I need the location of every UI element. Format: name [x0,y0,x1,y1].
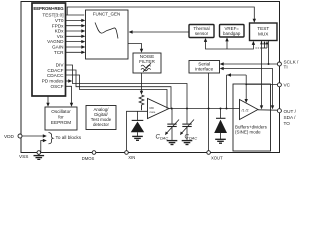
svg-text:VDD: VDD [4,134,15,139]
wire thermal to funct [131,31,190,33]
svg-text:SCLK /: SCLK / [284,59,300,64]
wire rail CDAC C [66,75,168,109]
svg-text:FPDx: FPDx [52,23,64,28]
svg-text:OUT /: OUT / [284,109,297,114]
svg-text:To all blocks: To all blocks [56,135,82,140]
wire TEST bus to funct [66,14,85,16]
svg-text:CDACC: CDACC [47,73,64,78]
wire sclk [222,63,278,65]
funct_gen curve [95,23,118,39]
wire testmux to out [261,41,263,108]
arrow cap1 variable [165,132,168,136]
arrows into funct gen [81,19,85,22]
svg-text:core: core [150,110,156,114]
ground under D1 [132,136,143,140]
svg-text:VC: VC [284,83,291,88]
wire VAGND [66,41,85,43]
wire sda [222,69,273,108]
svg-text:Buffers+dividers: Buffers+dividers [235,124,268,129]
wire TEST to test mux top rail [67,7,254,21]
ground under CDAC2 [182,141,193,145]
arrow into noise filter [140,49,143,53]
svg-text:DIV: DIV [56,63,65,68]
brace to all blocks [49,133,54,144]
wire noise filter down to resistor [141,73,143,93]
svg-text:DAC: DAC [189,135,197,140]
wire rail DIV [66,65,188,109]
arrow into serial from sclk [220,62,224,65]
osc inverter A1 [148,99,170,119]
arrow thermal into funct [129,30,133,33]
svg-text:detector: detector [93,122,110,127]
wire TCR [66,51,85,53]
arrow vc into buffers [245,99,248,103]
noise filter glyph [141,65,151,67]
svg-text:(SINE) mode: (SINE) mode [235,130,261,135]
chip border [21,2,280,153]
svg-text:EEPROM: EEPROM [51,120,71,125]
node cap2 [186,108,188,110]
wire eeprom to oscillator box [47,96,49,105]
wire serial aux to osc [227,74,247,76]
capacitor CDAC1 [166,109,179,141]
svg-text:VT0: VT0 [55,18,64,23]
oscillator for eeprom box [45,107,77,130]
wire xin vertical [127,111,148,152]
arrow into osc box from eeprom [46,103,49,107]
junction dots [171,63,270,110]
ground under D2 [215,139,226,143]
svg-text:VSS: VSS [19,154,28,159]
wire aux drop to node [226,75,228,109]
pin DMOS [92,151,96,155]
svg-text:TEST[3:0]: TEST[3:0] [42,13,63,18]
arrow vss to blocks [43,139,47,142]
node sclk testmux [268,63,270,65]
svg-text:SDA /: SDA / [284,115,297,120]
ground under CDAC1 [167,141,178,145]
wire vc [246,83,277,85]
pin VSS [37,151,41,155]
svg-text:OSCF: OSCF [50,84,63,89]
pin VC [277,83,281,87]
wire GAIN [66,46,85,48]
arrows bundle into mux bottom [260,41,263,44]
svg-text:FUNCT_GEN: FUNCT_GEN [93,12,121,17]
svg-text:Oscillator: Oscillator [51,109,71,114]
wire testmux to sclk [268,41,270,65]
wire KDx [66,30,85,32]
svg-text:DMOS: DMOS [82,156,95,160]
wire xout vertical [208,73,210,153]
arrow into thermal bottom [204,38,207,42]
wire funct out to noise filter [128,44,142,52]
svg-text:DAC: DAC [160,135,168,140]
svg-text:TCR: TCR [54,50,64,55]
buffers box [233,84,271,151]
wire diode1 stub [137,111,139,120]
svg-text:TO: TO [284,121,291,126]
arrow into resistor [140,91,143,95]
node xout [208,108,210,110]
svg-text:VAGND: VAGND [47,39,64,44]
pin VDD [18,134,22,138]
diode D2 [214,118,227,139]
wire rail CDAC F [66,70,172,109]
pin circles [18,62,281,154]
wire diode2 stub [220,109,222,119]
svg-text:XOUT: XOUT [211,155,223,160]
vref bandgap box [220,25,245,38]
wire test bus to thermal and bandgap [206,40,254,49]
arrow left on aux wire [227,73,231,76]
buffer amp A2 [240,100,259,120]
wire OSCF to oscillator box [66,86,72,105]
wire VT0 [66,19,85,21]
svg-text:PD modes: PD modes [42,79,65,84]
thermal sensor box [189,25,214,38]
test mux box [250,23,278,41]
wire FPDx [66,25,85,27]
node cap1 [171,108,173,110]
svg-text:FILTER: FILTER [139,59,155,64]
node aux [226,108,228,110]
wire main node line [169,108,240,110]
pin OUT [277,109,281,113]
svg-text:interface: interface [195,67,213,72]
svg-text:VIx: VIx [57,34,64,39]
arrow PD modes [68,79,72,82]
diode D1 [131,120,144,136]
capacitor CDAC2 [181,109,194,141]
arrow testmux down to out wire [260,105,263,109]
arrowheads [43,19,274,143]
svg-text:TI: TI [284,65,288,70]
svg-text:bandgap: bandgap [223,31,241,36]
wire PD modes with arrow [66,80,69,82]
svg-text:XIN: XIN [128,155,135,160]
noise filter box [133,53,161,73]
svg-text:for: for [58,114,64,119]
pin XIN [125,151,129,155]
resistor R1 [139,95,144,110]
serial interface box [189,61,220,74]
mode detector box [86,106,116,130]
svg-text:KDx: KDx [55,29,65,34]
svg-text:TEST: TEST [257,26,269,31]
test bundle arrows [264,44,266,49]
svg-text:EEPROM+REG: EEPROM+REG [33,6,64,11]
svg-text:CDACF: CDACF [47,68,63,73]
svg-text:GAIN: GAIN [52,45,63,50]
eeprom box U1 [32,3,66,96]
wire VIx [66,35,85,37]
arrow into serial sda [220,67,224,70]
arrow vdd to blocks [43,134,47,137]
arrow test bus up into mux [252,41,255,45]
svg-text:MUX: MUX [258,31,269,36]
arrow sda down to out wire [271,105,274,109]
pin SCLK [277,62,281,66]
dashed test bus [256,47,262,49]
arrow into test mux top [253,19,256,23]
arrow into osc box from oscf [70,103,73,107]
wire bandgap branch [226,40,228,49]
wire buffer out to OUT pin [258,109,277,111]
wire vref down to buffers [245,75,247,99]
svg-text:/1 /2: /1 /2 [242,108,249,112]
pin XOUT [207,151,211,155]
ground at VSS [34,154,45,159]
node diode2 [220,108,222,110]
funct_gen box [86,10,129,59]
wire vss to allblocks [41,141,44,153]
wire vdd [22,135,44,137]
arrow cap2 variable [180,132,183,136]
arrow into bandgap bottom [225,37,228,41]
svg-text:sensor: sensor [195,31,209,36]
